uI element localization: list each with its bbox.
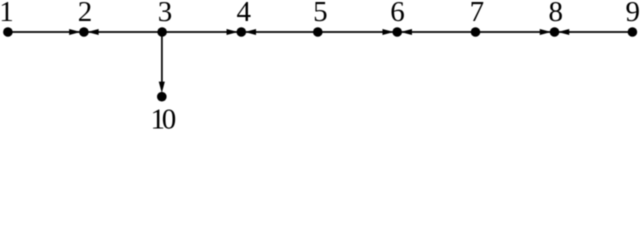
node 10 dot [157,92,167,102]
svg-text:1: 1 [0,0,14,28]
arrowhead edge 5->6 [383,29,393,34]
svg-text:7: 7 [470,0,485,28]
wire horizontal path line nodes 1-9 [8,31,633,33]
svg-text:9: 9 [626,0,640,28]
node 8 dot [550,27,560,37]
arrowhead edge 5->4 [246,29,256,34]
arrowhead edge 1->2 [70,29,80,34]
arrowhead edge 9->8 [559,29,569,34]
node 5 dot [313,27,323,37]
node 9 dot [628,27,638,37]
svg-text:4: 4 [237,0,252,28]
svg-text:2: 2 [78,0,93,28]
wire vertical edge 3 to 10 [161,32,163,88]
arrowhead edge 3->2 [89,29,99,34]
arrowhead edge 3->4 [227,29,237,34]
arrowhead edge 3->10 [159,82,164,92]
svg-text:10: 10 [150,104,175,130]
arrowhead edge 7->6 [402,29,412,34]
node 6 dot [392,27,402,37]
svg-text:5: 5 [313,0,328,28]
node 7 dot [471,27,481,37]
node 2 dot [79,27,89,37]
svg-text:8: 8 [549,0,564,28]
arrowhead edge 7->8 [540,29,550,34]
svg-text:6: 6 [390,0,405,28]
svg-text:3: 3 [158,0,173,28]
node 4 dot [237,27,247,37]
node 3 dot [157,27,167,37]
node 1 dot [3,27,13,37]
